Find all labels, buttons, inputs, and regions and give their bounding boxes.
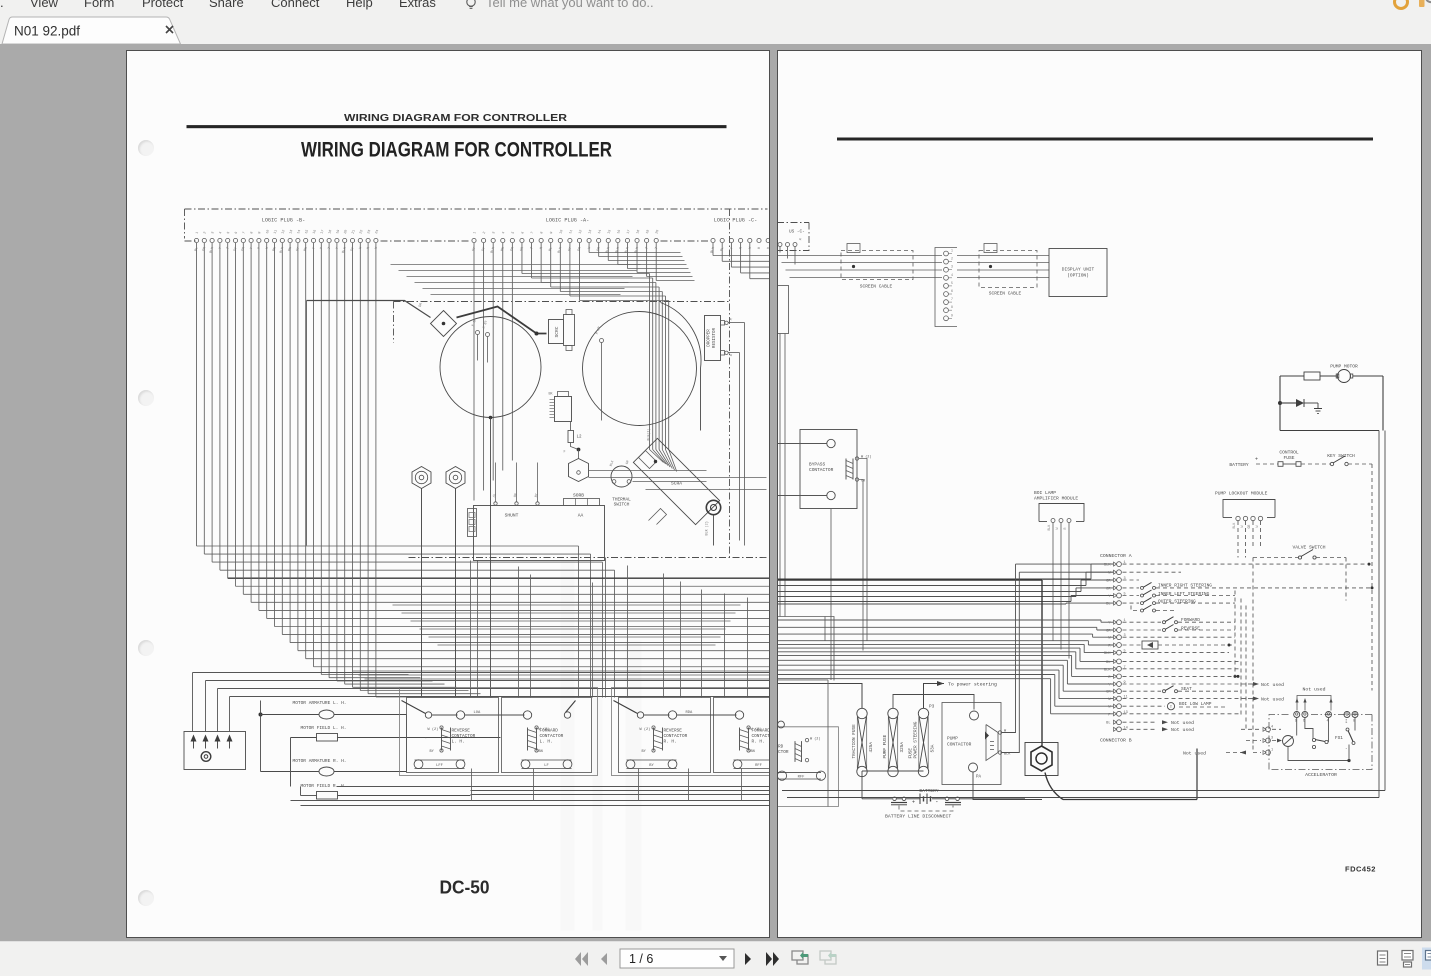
wire bypass top (777, 443, 826, 445)
wire drops to contactor area (518, 567, 520, 698)
svg-text:GR: GR (625, 460, 630, 465)
svg-text:OR: OR (577, 247, 582, 252)
svg-text:W (2): W (2) (810, 737, 821, 742)
svg-text:BLK: BLK (1047, 525, 1051, 531)
controller outline top dash-dot (185, 208, 768, 210)
wire to display unit (957, 269, 1049, 271)
svg-text:Not used: Not used (1261, 682, 1284, 688)
connector A pin 11 (1113, 651, 1116, 655)
not used arrow 4 (1162, 727, 1168, 731)
svg-text:8: 8 (540, 231, 544, 234)
wire from bolt1 down (421, 489, 423, 698)
brush contact on M2 (600, 339, 604, 343)
svg-text:R. H.: R. H. (664, 740, 677, 745)
ground symbol (1317, 403, 1319, 409)
svg-text:14: 14 (297, 229, 302, 234)
hex bolt terminal 1 (412, 467, 431, 489)
bottom bus wires (337, 786, 771, 788)
svg-text:4: 4 (502, 231, 506, 234)
svg-text:PUMP LOCKOUT MODULE: PUMP LOCKOUT MODULE (1215, 491, 1268, 497)
motor armature circle M1 (440, 317, 541, 418)
brush contacts on M1 (476, 331, 480, 335)
svg-text:24: 24 (375, 229, 380, 234)
connector A pin 9 (1113, 635, 1116, 639)
plug C continuation pins (778, 243, 782, 247)
svg-text:Not used: Not used (1302, 687, 1325, 693)
svg-text:GY: GY (296, 247, 301, 252)
svg-text:LF: LF (544, 764, 549, 768)
svg-text:R: R (367, 247, 371, 250)
svg-text:W (2): W (2) (539, 727, 550, 732)
svg-text:LOGIC PLUG -C-: LOGIC PLUG -C- (714, 218, 758, 224)
SCRC box (549, 320, 564, 344)
accelerator terminal 8 (1352, 712, 1358, 718)
wire drops from contactor tips (471, 769, 473, 801)
svg-text:BN: BN (751, 750, 755, 754)
screen cable dashed shield 2 (979, 251, 1037, 288)
dropper resistor box (705, 316, 721, 361)
svg-text:CONTACTOR: CONTACTOR (947, 742, 972, 748)
svg-text:DC-50: DC-50 (440, 878, 490, 898)
connector A pin 21 (1113, 727, 1116, 731)
wire traction fuse feed (777, 684, 862, 709)
svg-text:+: + (912, 800, 915, 806)
SCRA diagonal module (633, 438, 719, 524)
left edge module fragment (777, 286, 788, 334)
wire bypass bottom (777, 495, 826, 497)
wires battery box up and right (192, 673, 194, 732)
svg-text:Not used: Not used (1171, 727, 1194, 733)
svg-text:GY: GY (568, 247, 573, 252)
controller inner dash-dot horizontal (394, 301, 730, 303)
wire dropper pin2 (729, 352, 740, 354)
svg-text:AL: AL (492, 493, 497, 498)
svg-text:9: 9 (258, 231, 262, 234)
header rule right page (837, 138, 1373, 141)
dashed verticals right area (1234, 591, 1236, 677)
wire to display unit (957, 262, 1049, 264)
svg-text:1: 1 (951, 249, 953, 253)
svg-text:MOTOR ARMATURE R. H.: MOTOR ARMATURE R. H. (293, 758, 347, 764)
svg-text:BY: BY (430, 750, 435, 754)
svg-text:BLK: BLK (1004, 753, 1011, 757)
power stud (bolt) (1025, 743, 1058, 776)
svg-text:21: 21 (352, 229, 357, 234)
bypass coil (845, 459, 847, 480)
contact bar (1312, 738, 1315, 741)
dash-dot between plug A and C (661, 240, 711, 242)
svg-text:6: 6 (951, 289, 953, 293)
contactor coil (653, 728, 655, 751)
key switch symbol (1330, 462, 1333, 465)
svg-text:22: 22 (359, 229, 364, 234)
connector logic plug B pins (194, 229, 380, 253)
svg-text:23: 23 (367, 229, 372, 234)
svg-text:*: * (425, 737, 427, 742)
svg-text:P: P (320, 247, 324, 250)
fragment oval bar RFF (777, 771, 821, 773)
svg-text:BN: BN (501, 247, 506, 252)
svg-text:6: 6 (521, 231, 525, 234)
svg-text:BLK: BLK (1232, 523, 1236, 529)
wires converging into SCRA (650, 450, 664, 463)
svg-text:MOTOR FIELD L. H.: MOTOR FIELD L. H. (301, 725, 347, 731)
connector A pin 7 (1113, 620, 1116, 624)
svg-text:CONTROL: CONTROL (1279, 450, 1299, 456)
svg-text:W: W (588, 246, 593, 250)
svg-text:BN: BN (272, 247, 277, 252)
svg-text:7: 7 (242, 231, 246, 234)
screen cable wires (777, 255, 942, 257)
svg-text:BATTERY: BATTERY (919, 788, 939, 794)
dropper resistor pins (721, 321, 725, 326)
diode D1 (1296, 399, 1304, 407)
svg-text:11: 11 (569, 229, 574, 234)
svg-text:R: R (798, 238, 802, 241)
svg-text:CONTACTOR: CONTACTOR (664, 734, 688, 739)
wire logic plug C drops (712, 243, 714, 256)
SCRA inner step (649, 509, 667, 525)
svg-text:R: R (739, 247, 743, 250)
wire inside M2 (601, 343, 603, 421)
pump contactor box (942, 703, 1001, 785)
svg-text:OR: OR (241, 247, 246, 252)
svg-text:BN: BN (304, 247, 309, 252)
controller inner dash-dot vertical (393, 302, 395, 343)
left page: wiring diagram sheet 1 (126, 50, 770, 938)
svg-text:T: T (530, 247, 534, 250)
svg-text:16: 16 (313, 229, 318, 234)
shunt small contacts (494, 502, 497, 505)
svg-text:W: W (1055, 528, 1059, 530)
wire armature join (406, 715, 408, 772)
svg-text:OR: OR (597, 247, 602, 252)
controller outline bottom dash-dot (409, 557, 768, 559)
controller outline right dash-dot (729, 209, 731, 558)
svg-text:1: 1 (473, 231, 477, 234)
frame border right page (782, 790, 1385, 792)
svg-text:W: W (359, 246, 364, 250)
bypass contactor (800, 430, 857, 509)
heavy wire from diamond going left (307, 301, 431, 318)
svg-text:12: 12 (281, 229, 286, 234)
svg-text:R. H.: R. H. (752, 740, 765, 745)
svg-text:RDA: RDA (686, 711, 694, 715)
svg-text:CTOR: CTOR (778, 750, 789, 755)
svg-text:Not used: Not used (1171, 720, 1194, 726)
svg-text:19: 19 (336, 229, 341, 234)
connector A pin 15 (1113, 682, 1116, 686)
battery terminal box (184, 732, 246, 770)
wire extra band horizontals (393, 604, 741, 606)
svg-text:RFF: RFF (797, 776, 805, 780)
ring terminal (706, 500, 720, 514)
svg-text:REVERSE: REVERSE (452, 729, 471, 734)
accelerator assembly (1269, 715, 1291, 770)
disconnect plates (891, 802, 907, 804)
motor armature circle M2 (583, 312, 697, 426)
left edge contactor fragment (777, 727, 838, 807)
svg-text:19: 19 (646, 229, 651, 234)
bypass wires down (859, 459, 867, 641)
svg-text:BATTERY: BATTERY (1229, 462, 1249, 468)
wire pump motor right (1382, 376, 1384, 431)
svg-text:SORB: SORB (573, 493, 584, 499)
svg-text:L. H.: L. H. (540, 740, 553, 745)
svg-text:T: T (645, 247, 649, 250)
svg-text:W (2): W (2) (428, 727, 439, 732)
svg-text:5: 5 (951, 281, 953, 285)
svg-text:325A: 325A (900, 742, 905, 753)
fuse TRACTION FUSE (856, 708, 866, 718)
svg-text:17: 17 (627, 229, 632, 234)
svg-text:+: + (1255, 457, 1258, 463)
connector B pins (1263, 727, 1266, 731)
svg-text:CONTACTOR: CONTACTOR (752, 734, 770, 739)
right page: wiring diagram sheet 2 (777, 50, 1422, 938)
accelerator internal wires (1295, 718, 1297, 736)
svg-text:9: 9 (550, 231, 554, 234)
svg-text:TRACTION FUSE: TRACTION FUSE (852, 724, 857, 759)
heavy wire to bolt (777, 579, 1042, 581)
svg-text:N01 92.pdf: N01 92.pdf (14, 24, 80, 39)
svg-text:BLK: BLK (1104, 668, 1111, 672)
svg-text:FDC452: FDC452 (1345, 865, 1376, 874)
svg-text:OR: OR (861, 480, 866, 484)
svg-text:53A: 53A (930, 744, 935, 752)
pump contactor coil triangle (986, 725, 998, 761)
fuse POWER STEERING|FUSE (918, 708, 928, 718)
left edge box above contactor fragment (777, 617, 834, 681)
arc wire around M2 (661, 303, 701, 431)
svg-text:Y: Y (219, 247, 223, 250)
wire M1 down to contactor (490, 418, 492, 698)
svg-text:8: 8 (250, 231, 254, 234)
svg-text:OR: OR (510, 247, 515, 252)
svg-text:BL: BL (194, 247, 199, 252)
contactor coil (441, 728, 443, 751)
svg-text:R OR: R OR (595, 326, 601, 335)
svg-text:INNER LEFT STEERING: INNER LEFT STEERING (1158, 591, 1210, 597)
BOI low lamp (1167, 703, 1174, 710)
resistor pump motor (1304, 372, 1320, 380)
svg-text:BYPASS: BYPASS (809, 462, 826, 468)
connector A pin 19 (1113, 712, 1116, 716)
svg-text:REVERSE: REVERSE (664, 729, 683, 734)
svg-text:WIRING DIAGRAM FOR CONTROLLER: WIRING DIAGRAM FOR CONTROLLER (301, 139, 612, 162)
svg-text:MOTOR ARMATURE L. H.: MOTOR ARMATURE L. H. (293, 700, 347, 706)
svg-text:BL: BL (1106, 661, 1110, 665)
accelerator terminal 7 (1344, 712, 1350, 718)
svg-text:AA: AA (578, 513, 584, 519)
logic plug C continuation box (777, 223, 809, 251)
svg-text:BL: BL (1106, 603, 1110, 607)
header rule (187, 125, 727, 128)
hex bolt terminal 2 (446, 467, 465, 489)
svg-text:GR: GR (419, 302, 425, 308)
diode in contactor (985, 732, 989, 740)
svg-text:20: 20 (344, 229, 349, 234)
SCRC stack connector (564, 315, 575, 346)
svg-text:GR: GR (1247, 525, 1251, 529)
svg-text:RFF: RFF (755, 764, 763, 768)
control fuse symbol (1278, 462, 1283, 467)
svg-text:BLK (2): BLK (2) (705, 521, 710, 535)
svg-text:1 / 6: 1 / 6 (629, 952, 653, 966)
svg-text:BOI LOW LAMP: BOI LOW LAMP (1179, 701, 1212, 707)
svg-text:B: B (758, 247, 762, 250)
wire bundle group 1 (to connector A pins 1-6) (777, 578, 1091, 580)
coil zigzag (990, 741, 994, 743)
svg-text:Y: Y (730, 247, 734, 250)
not used arrow 2 (1253, 697, 1259, 701)
svg-text:LOA: LOA (474, 711, 482, 715)
svg-text:RESISTOR: RESISTOR (713, 327, 717, 348)
connector A pin 2 (1113, 570, 1116, 574)
dashed vertical from key switch (1371, 464, 1373, 691)
svg-text:PUMP: PUMP (947, 736, 958, 742)
connector A pin 16 (1113, 689, 1116, 693)
junction dot bottom of M1 (489, 416, 493, 420)
svg-text:BLK: BLK (1104, 564, 1111, 568)
battery box ring (201, 752, 211, 762)
svg-text:W (2): W (2) (640, 727, 651, 732)
small component box pin10 (1122, 644, 1142, 646)
transformer/inductor stack (555, 397, 572, 422)
svg-text:20: 20 (655, 229, 660, 234)
svg-text:13: 13 (289, 229, 294, 234)
svg-text:2: 2 (203, 231, 207, 234)
svg-text:SCREEN CABLE: SCREEN CABLE (988, 291, 1021, 297)
svg-text:5: 5 (227, 231, 231, 234)
svg-text:10: 10 (266, 229, 271, 234)
svg-text:T: T (226, 247, 230, 250)
junction dot diode (1278, 401, 1282, 405)
heavy wire from diamond to SCRC (457, 307, 547, 334)
svg-text:8: 8 (951, 305, 953, 309)
wire drop from heavy wire (306, 301, 308, 546)
svg-text:BATTERY LINE DISCONNECT: BATTERY LINE DISCONNECT (885, 814, 951, 820)
svg-text:LOGIC PLUG -B-: LOGIC PLUG -B- (262, 218, 306, 224)
svg-text:W: W (265, 246, 270, 250)
svg-text:LFF: LFF (436, 764, 444, 768)
paper scan texture (331, 561, 642, 931)
svg-text:R: R (1063, 528, 1067, 530)
svg-text:BL: BL (549, 247, 554, 252)
svg-text:L2: L2 (577, 436, 583, 440)
SORB thyristor hexagon (569, 459, 589, 482)
thermal switch (611, 466, 632, 487)
wire to display unit (957, 255, 1049, 257)
svg-text:6: 6 (235, 231, 239, 234)
svg-text:DISPLAY UNIT: DISPLAY UNIT (1061, 267, 1094, 273)
wire band between plugs (391, 264, 641, 266)
wire dropper pin1 (729, 322, 745, 324)
svg-text:3: 3 (492, 231, 496, 234)
accelerator terminal 6 (1301, 712, 1307, 718)
svg-text:PUMP FUSE: PUMP FUSE (883, 734, 888, 758)
svg-text:4: 4 (219, 231, 223, 234)
svg-text:14: 14 (598, 229, 603, 234)
svg-text:T: T (655, 247, 659, 250)
svg-text:Y: Y (312, 247, 316, 250)
svg-text:12: 12 (579, 229, 584, 234)
wire bundle logic plug A (474, 243, 695, 501)
contactor main bar (402, 701, 426, 714)
battery box arrows (191, 735, 197, 742)
svg-text:T: T (328, 247, 332, 250)
shunt drops (470, 561, 472, 698)
svg-text:R: R (730, 318, 734, 321)
svg-text:BK: BK (549, 393, 554, 397)
svg-text:To power steering: To power steering (948, 682, 997, 688)
wire pump motor bottom (1280, 430, 1379, 432)
junction dot below L2 (577, 448, 581, 452)
svg-text:WIRING DIAGRAM FOR CONTROLLER: WIRING DIAGRAM FOR CONTROLLER (344, 112, 567, 124)
svg-text:ACCELERATOR: ACCELERATOR (1305, 772, 1337, 778)
svg-text:P: P (1108, 713, 1110, 717)
contactor tip bar (734, 759, 771, 761)
svg-text:2: 2 (951, 257, 953, 261)
svg-text:BT: BT (534, 493, 539, 498)
svg-text:SHUNT: SHUNT (505, 513, 519, 519)
frame right border inner (1378, 431, 1380, 798)
wires sorb/thermal to right (589, 470, 707, 472)
svg-text:-: - (1345, 747, 1348, 752)
connector logic plug C pins (710, 238, 771, 254)
wire fuse1 to battery line (861, 771, 863, 799)
connector A pin 6 (1113, 601, 1116, 605)
dash-dot between plug B and A (381, 240, 471, 242)
svg-text:OR: OR (202, 247, 207, 252)
to power steering (923, 684, 944, 709)
svg-text:13: 13 (588, 229, 593, 234)
svg-text:W: W (730, 353, 735, 357)
display unit box (1049, 249, 1107, 297)
svg-text:W: W (1255, 526, 1259, 528)
svg-text:BN: BN (539, 750, 543, 754)
connector A pin 10 (1113, 643, 1116, 647)
svg-text:Not used: Not used (1182, 751, 1205, 757)
svg-text:9: 9 (951, 313, 953, 317)
shunt top tabs (564, 499, 600, 506)
svg-text:Not used: Not used (1261, 697, 1284, 703)
svg-text:E GR: E GR (471, 318, 477, 327)
connector A pin 4 (1113, 586, 1116, 590)
connector A pin 14 (1113, 674, 1116, 678)
wire PA down (973, 772, 1042, 800)
svg-text:BY: BY (649, 764, 654, 768)
connector A pin 17 (1113, 697, 1116, 701)
svg-text:5: 5 (511, 231, 515, 234)
controller outline left dash-dot (184, 209, 186, 239)
wire pump fuse to contactor (893, 695, 974, 710)
svg-text:(OPTION): (OPTION) (1067, 273, 1089, 279)
svg-text:CONTACTOR: CONTACTOR (452, 734, 476, 739)
connector A pin 8 (1113, 628, 1116, 632)
svg-text:BL: BL (720, 247, 725, 252)
svg-text:Y: Y (336, 247, 340, 250)
not used arrow B (1226, 752, 1246, 754)
dash-dot connector stub left (185, 240, 197, 242)
svg-text:POWER STEERING: POWER STEERING (913, 721, 918, 758)
svg-text:3: 3 (951, 265, 953, 269)
svg-text:AMPLIFIER MODULE: AMPLIFIER MODULE (1034, 496, 1078, 502)
wires pins1-2 down to pump contactor (1001, 564, 1016, 732)
svg-text:BN: BN (288, 247, 293, 252)
accelerator terminal 4 (1325, 712, 1331, 718)
svg-text:DROPPER: DROPPER (708, 329, 712, 347)
